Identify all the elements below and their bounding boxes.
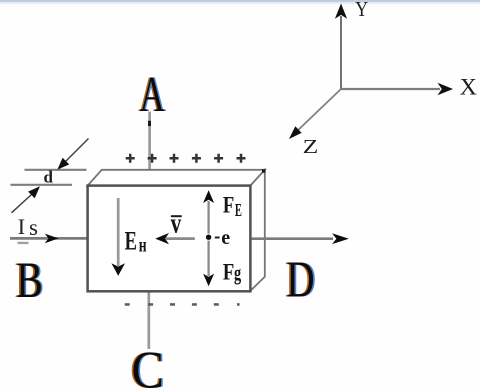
arrow F_g (down) (203, 241, 214, 287)
dimension lower line (11, 184, 73, 186)
svg-text:E: E (125, 226, 137, 255)
arrow E_H (Hall field, down) (111, 198, 125, 276)
label A (138, 66, 166, 122)
arrow F_E (up) (203, 190, 214, 233)
svg-text:B: B (16, 251, 43, 308)
label F_g (223, 258, 242, 285)
minus charges row (125, 303, 240, 306)
wire B (10, 234, 87, 244)
svg-text:d: d (44, 168, 54, 187)
box right face (250, 170, 264, 291)
svg-text:e: e (221, 227, 230, 249)
dimension lower arrow (12, 186, 41, 213)
corner dot (262, 169, 265, 172)
box front face (88, 186, 251, 292)
label F_E (223, 191, 242, 221)
label D (285, 250, 317, 307)
label B (14, 251, 44, 308)
wire D (252, 233, 349, 244)
svg-text:Y: Y (355, 0, 368, 21)
dimension upper arrow (57, 139, 88, 170)
label Is (18, 214, 39, 244)
svg-text:н: н (139, 233, 147, 257)
svg-text:X: X (460, 74, 477, 100)
tick on lead A (148, 121, 151, 126)
svg-text:E: E (235, 202, 242, 222)
svg-text:A: A (140, 66, 165, 122)
label C (130, 342, 166, 389)
box top face (88, 170, 265, 186)
axis X (341, 83, 453, 95)
svg-text:v: v (171, 209, 182, 240)
svg-text:I: I (18, 214, 26, 239)
lead C (147, 291, 150, 349)
svg-text:Z: Z (303, 136, 319, 159)
svg-text:F: F (223, 258, 234, 284)
lead A (148, 112, 151, 187)
label -e (215, 227, 231, 249)
svg-text:F: F (223, 191, 234, 217)
svg-text:g: g (234, 261, 242, 286)
dimension upper line (25, 169, 87, 171)
svg-text:D: D (286, 250, 314, 307)
axis Z (289, 89, 341, 139)
arrow v (velocity, left) (155, 233, 195, 244)
label v bar (171, 209, 182, 240)
svg-text:s: s (29, 215, 38, 240)
label E_H (125, 226, 147, 256)
electron dot (206, 235, 211, 240)
top border line (0, 0, 480, 2)
axis Y (335, 4, 347, 90)
plus charges row (126, 154, 246, 163)
